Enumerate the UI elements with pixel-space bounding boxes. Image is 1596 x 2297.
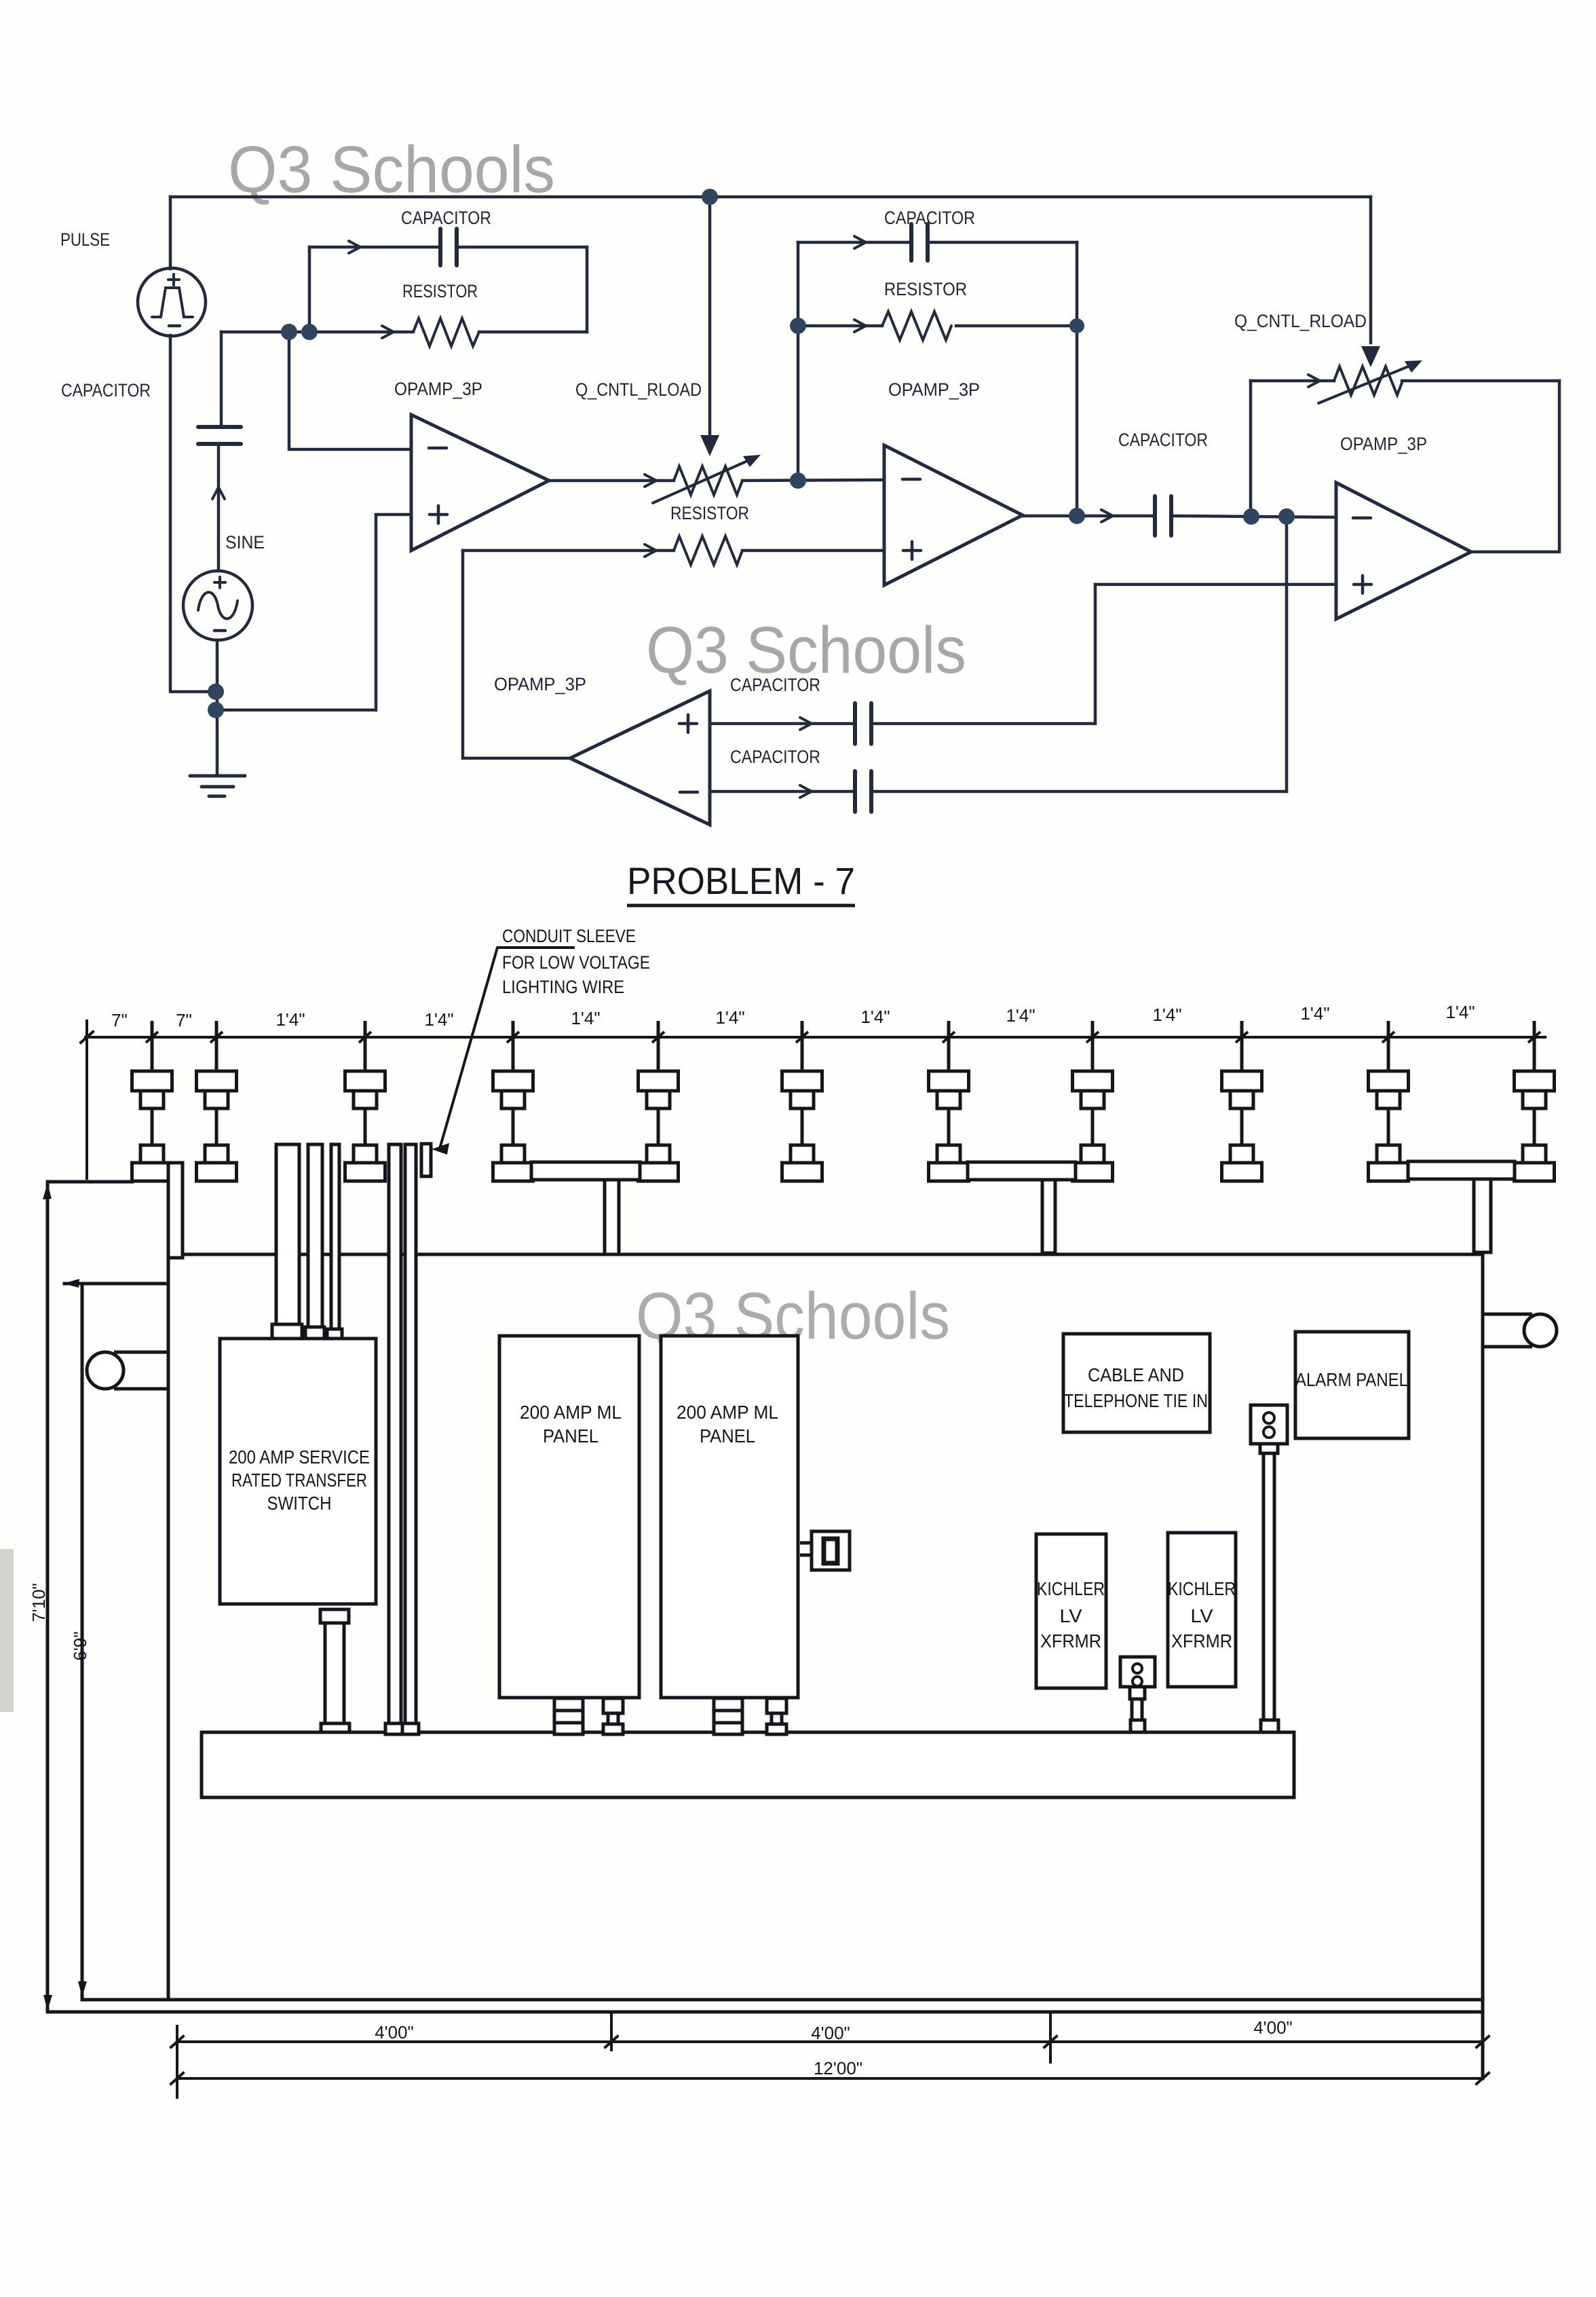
svg-text:200 AMP ML: 200 AMP ML <box>520 1402 622 1423</box>
svg-text:RESISTOR: RESISTOR <box>670 503 749 523</box>
svg-text:1'4": 1'4" <box>571 1008 600 1028</box>
title PROBLEM - 7 <box>627 859 855 905</box>
transfer switch bottom collar lower <box>321 1723 349 1734</box>
wire top bus <box>170 195 1371 199</box>
capacitor C5 opamp4 plus <box>855 703 871 744</box>
dimension line ceiling <box>85 1036 1545 1039</box>
capacitor C6 opamp4 minus <box>855 771 871 812</box>
room top edge <box>176 1253 1483 1256</box>
conduit drop pair 10-11 <box>1474 1179 1491 1252</box>
junction dot source rail upper <box>208 684 224 700</box>
junction dot feedback2 resistor left <box>790 318 806 334</box>
fixture F5 <box>639 1021 679 1181</box>
conduit drop pair 3-4 <box>605 1180 619 1254</box>
wire opamp1 output <box>549 480 884 481</box>
svg-text:7": 7" <box>176 1010 192 1030</box>
wire opamp1 minus input <box>289 332 411 449</box>
op-amp U4 <box>570 691 710 825</box>
arrowhead 6ft9 left <box>63 1279 79 1288</box>
fixture F7 <box>929 1021 969 1181</box>
svg-text:PANEL: PANEL <box>543 1425 598 1446</box>
fixture F6 <box>782 1021 822 1181</box>
wire opamp4 plus capacitor run <box>710 722 1095 726</box>
svg-text:XFRMR: XFRMR <box>1040 1630 1101 1651</box>
wire opamp3 plus drop <box>1094 584 1097 724</box>
label panel ML 1 <box>520 1402 622 1446</box>
transfer switch collar 2 <box>305 1327 324 1339</box>
svg-text:KICHLER: KICHLER <box>1037 1578 1105 1599</box>
wire feedback1 resistor branch <box>221 331 587 334</box>
panel2 stub A <box>714 1698 742 1734</box>
junction dot node B opamp3 minus <box>1278 508 1295 525</box>
arrow on feedback2 capacitor wire <box>854 236 866 248</box>
wire opamp3 plus input <box>1095 583 1336 586</box>
svg-text:Q3 Schools: Q3 Schools <box>228 132 555 206</box>
svg-text:KICHLER: KICHLER <box>1168 1578 1236 1599</box>
panel ML 1 <box>499 1336 639 1698</box>
svg-text:1'4": 1'4" <box>1152 1005 1181 1025</box>
svg-text:OPAMP_3P: OPAMP_3P <box>888 379 980 400</box>
capacitor C1 left <box>198 427 241 444</box>
dimension tick bottom left <box>176 2026 178 2097</box>
room right wall <box>1481 1252 1485 2078</box>
svg-text:SINE: SINE <box>225 532 265 553</box>
arrow on opamp4 plus wire <box>800 717 812 730</box>
svg-text:1'4": 1'4" <box>1300 1003 1329 1024</box>
wire top bus right drop to RLOAD2 <box>1369 197 1373 343</box>
telephone conduit collar bottom <box>1261 1720 1278 1732</box>
telephone conduit collar top <box>1260 1444 1278 1453</box>
svg-text:4'00": 4'00" <box>811 2023 850 2043</box>
panel1 stub B <box>603 1698 623 1734</box>
panel ML 2 <box>661 1336 798 1698</box>
svg-text:OPAMP_3P: OPAMP_3P <box>494 674 586 694</box>
label panel ML 2 <box>677 1402 778 1446</box>
svg-text:CONDUIT SLEEVE: CONDUIT SLEEVE <box>502 926 636 946</box>
fixture F3 <box>345 1021 385 1181</box>
dimension tick wall reference <box>81 1021 93 1178</box>
junction dot opamp2 output node <box>1069 508 1085 524</box>
wire feedback2 left vertical <box>797 242 800 326</box>
capacitor C3 feedback2 <box>911 224 928 261</box>
panel2 stub B <box>767 1698 786 1734</box>
label conduit sleeve note <box>502 926 650 997</box>
fixture F1 <box>132 1021 172 1181</box>
svg-text:OPAMP_3P: OPAMP_3P <box>394 379 482 399</box>
telephone device <box>1251 1405 1287 1444</box>
wire pulse to top bus <box>169 197 172 269</box>
arrow on opamp2 output <box>1101 510 1113 522</box>
arrow on opamp1 output <box>645 474 656 487</box>
svg-text:200 AMP SERVICE: 200 AMP SERVICE <box>229 1446 370 1468</box>
arrow up on sine wire <box>212 487 225 499</box>
arrowhead 7ft10 bottom <box>43 1995 52 2011</box>
conduit service 1 <box>276 1144 299 1325</box>
wire feedback3 right vertical <box>1471 381 1559 552</box>
raceway bar fixtures 10-11 <box>1408 1161 1515 1179</box>
svg-text:XFRMR: XFRMR <box>1171 1630 1232 1651</box>
op-amp U2 <box>884 445 1023 585</box>
wall outline 7ft10 extent <box>47 1182 132 2012</box>
dimension line 12ft <box>177 2077 1483 2080</box>
svg-text:RESISTOR: RESISTOR <box>402 281 478 301</box>
svg-text:12'00": 12'00" <box>814 2058 862 2078</box>
junction dot minus node left <box>281 324 297 340</box>
junction dot feedback1 node <box>301 324 318 340</box>
svg-text:7'10": 7'10" <box>28 1583 49 1622</box>
wire node A vertical <box>797 326 800 481</box>
label transformer 1 <box>1037 1578 1105 1651</box>
svg-text:FOR LOW VOLTAGE: FOR LOW VOLTAGE <box>502 952 650 973</box>
svg-text:1'4": 1'4" <box>1006 1005 1035 1026</box>
svg-text:CAPACITOR: CAPACITOR <box>401 208 491 228</box>
wire sine to ground <box>216 640 219 776</box>
svg-text:PULSE: PULSE <box>60 229 110 250</box>
svg-text:Q_CNTL_RLOAD: Q_CNTL_RLOAD <box>575 379 702 400</box>
svg-text:1'4": 1'4" <box>424 1009 453 1030</box>
conduit long twin 1 <box>389 1144 401 1723</box>
svg-text:CABLE AND: CABLE AND <box>1088 1364 1184 1385</box>
transformer KICHLER 1 <box>1036 1534 1106 1688</box>
pipe through right wall <box>1483 1314 1557 1347</box>
fixture F10 <box>1369 1021 1409 1181</box>
panel1 stub A <box>554 1698 583 1734</box>
junction dot source rail lower <box>208 702 224 718</box>
resistor R1 feedback1 <box>413 318 479 346</box>
wire resistor2 to opamp2 plus <box>463 549 884 553</box>
pulse source V1 <box>138 268 206 336</box>
wire cap1 branch vertical <box>220 332 223 427</box>
resistor R2 <box>674 536 742 565</box>
svg-text:LIGHTING WIRE: LIGHTING WIRE <box>502 977 624 997</box>
svg-text:1'4": 1'4" <box>860 1007 890 1027</box>
svg-text:PANEL: PANEL <box>700 1425 755 1446</box>
svg-text:RATED TRANSFER: RATED TRANSFER <box>231 1470 367 1491</box>
wire feedback2 right vertical <box>1076 242 1079 516</box>
floor line lower <box>47 2011 1483 2014</box>
junction dot opamp1 output node <box>790 472 806 489</box>
arrowhead down to RLOAD1 <box>700 435 719 456</box>
svg-text:OPAMP_3P: OPAMP_3P <box>1340 434 1427 454</box>
svg-text:Q_CNTL_RLOAD: Q_CNTL_RLOAD <box>1234 311 1367 331</box>
sine source V2 <box>183 571 252 640</box>
dimension line 4ft segments <box>177 2040 1483 2043</box>
resistor R3 feedback2 <box>882 312 951 340</box>
svg-text:1'4": 1'4" <box>1445 1002 1475 1022</box>
svg-text:6'9": 6'9" <box>70 1631 90 1660</box>
wire feedback1 left vertical <box>308 247 311 331</box>
transformer stub collar bottom <box>1130 1720 1145 1732</box>
junction box between transformers <box>1120 1657 1155 1687</box>
wire feedback2 resistor branch <box>798 324 1077 328</box>
svg-text:CAPACITOR: CAPACITOR <box>730 747 820 767</box>
transformer KICHLER 2 <box>1168 1533 1236 1687</box>
arrowhead down to RLOAD2 <box>1361 346 1380 367</box>
junction dot node A after C4 <box>1243 508 1259 525</box>
conduit fixture1 drop <box>168 1163 183 1258</box>
wire feedback1 capacitor branch <box>309 246 587 249</box>
resistor RLOAD1 variable <box>653 455 761 503</box>
leader line conduit sleeve callout <box>432 948 575 1155</box>
wire feedback2 capacitor branch <box>798 241 1077 244</box>
transfer switch bottom pipe <box>325 1623 344 1723</box>
capacitor C2 feedback1 <box>440 229 457 265</box>
ground <box>190 776 245 796</box>
svg-text:1'4": 1'4" <box>715 1007 744 1028</box>
wire opamp4 minus capacitor run <box>710 790 1287 793</box>
transfer switch collar 3 <box>327 1329 342 1339</box>
transformer stub pipe <box>1132 1699 1142 1720</box>
fixture F4 <box>493 1021 533 1181</box>
wire opamp4 output riser <box>463 550 570 758</box>
svg-text:PROBLEM - 7: PROBLEM - 7 <box>627 859 855 902</box>
svg-text:LV: LV <box>1060 1605 1082 1626</box>
floor line upper <box>82 1998 1483 2002</box>
twin conduit collar 1 <box>385 1723 403 1734</box>
fixture F9 <box>1222 1021 1262 1181</box>
svg-text:7": 7" <box>111 1010 128 1030</box>
raceway bar fixtures 7-8 <box>968 1162 1076 1180</box>
scan shadow left edge <box>0 1549 14 1712</box>
label transfer switch <box>229 1446 370 1514</box>
arrow on feedback3 RLOAD wire <box>1308 375 1320 387</box>
arrowhead 6ft9 bottom <box>78 1981 87 1997</box>
arrow on opamp4 minus wire <box>800 785 812 798</box>
svg-text:4'00": 4'00" <box>375 2022 414 2042</box>
dimension 6ft9 tick and line <box>64 1284 168 1998</box>
svg-text:ALARM PANEL: ALARM PANEL <box>1295 1369 1408 1390</box>
trench duct <box>202 1732 1294 1797</box>
svg-text:TELEPHONE TIE IN: TELEPHONE TIE IN <box>1064 1390 1208 1411</box>
label transformer 2 <box>1168 1578 1236 1651</box>
resistor RLOAD2 variable <box>1318 360 1422 403</box>
junction dot feedback2 right <box>1069 318 1084 333</box>
conduit service 2 <box>308 1144 322 1328</box>
meter box on panel2 <box>800 1531 850 1570</box>
arrow on resistor R2 wire <box>645 544 656 557</box>
svg-text:LV: LV <box>1191 1605 1213 1626</box>
transformer stub collar top <box>1130 1687 1145 1699</box>
pipe through left wall <box>87 1352 168 1389</box>
fixture F2 <box>197 1021 237 1181</box>
dimension tick 4ft first <box>610 2012 613 2050</box>
wire pulse source bottom down-left rail <box>170 335 215 692</box>
arrow on feedback1 capacitor wire <box>349 241 360 253</box>
fixture F11 <box>1515 1021 1555 1181</box>
arrow on feedback1 resistor wire <box>382 326 394 338</box>
conduit drop pair 7-8 <box>1042 1180 1055 1253</box>
alarm panel box <box>1295 1332 1409 1438</box>
svg-text:RESISTOR: RESISTOR <box>884 279 967 299</box>
wire top bus drop to RLOAD1 <box>708 197 712 434</box>
svg-text:CAPACITOR: CAPACITOR <box>61 380 151 400</box>
svg-text:CAPACITOR: CAPACITOR <box>1118 430 1208 450</box>
wire feedback3 left vertical <box>1249 381 1253 517</box>
op-amp U3 <box>1336 483 1471 619</box>
conduit sleeve low voltage <box>421 1144 431 1176</box>
transfer switch collar 1 <box>272 1324 302 1339</box>
fixture F8 <box>1073 1021 1113 1181</box>
svg-text:1'4": 1'4" <box>275 1009 305 1030</box>
dimension slash marks bottom <box>171 2036 1489 2084</box>
svg-text:CAPACITOR: CAPACITOR <box>884 208 975 228</box>
arrowhead 7ft10 top <box>43 1183 52 1199</box>
room left wall <box>167 1181 170 2000</box>
telephone conduit drop <box>1263 1453 1274 1720</box>
transfer switch 200A <box>220 1339 376 1604</box>
raceway bar fixtures 3-4 <box>531 1162 640 1180</box>
svg-text:200 AMP ML: 200 AMP ML <box>677 1402 778 1423</box>
svg-text:SWITCH: SWITCH <box>267 1493 332 1514</box>
wire node B vertical <box>1285 517 1289 791</box>
svg-text:4'00": 4'00" <box>1253 2017 1293 2038</box>
dimension tick 4ft second <box>1049 2012 1052 2062</box>
cable telephone box <box>1063 1334 1210 1432</box>
wire opamp2 output <box>1023 516 1336 517</box>
capacitor C4 series <box>1155 496 1171 536</box>
label cable telephone <box>1064 1364 1208 1411</box>
wire opamp1 plus input <box>215 515 411 710</box>
op-amp U1 <box>411 415 549 550</box>
transfer switch bottom collar top <box>320 1609 349 1623</box>
conduit service 3 <box>331 1144 339 1330</box>
conduit long twin 2 <box>405 1144 416 1723</box>
wire cap1 to sine source <box>217 444 221 571</box>
arrow on feedback2 resistor wire <box>854 320 866 332</box>
wire feedback3 top RLOAD branch <box>1251 379 1559 383</box>
twin conduit collar 2 <box>402 1723 419 1734</box>
svg-text:CAPACITOR: CAPACITOR <box>730 675 820 695</box>
junction dot top bus <box>702 189 718 205</box>
wire feedback1 right vertical <box>586 247 589 332</box>
